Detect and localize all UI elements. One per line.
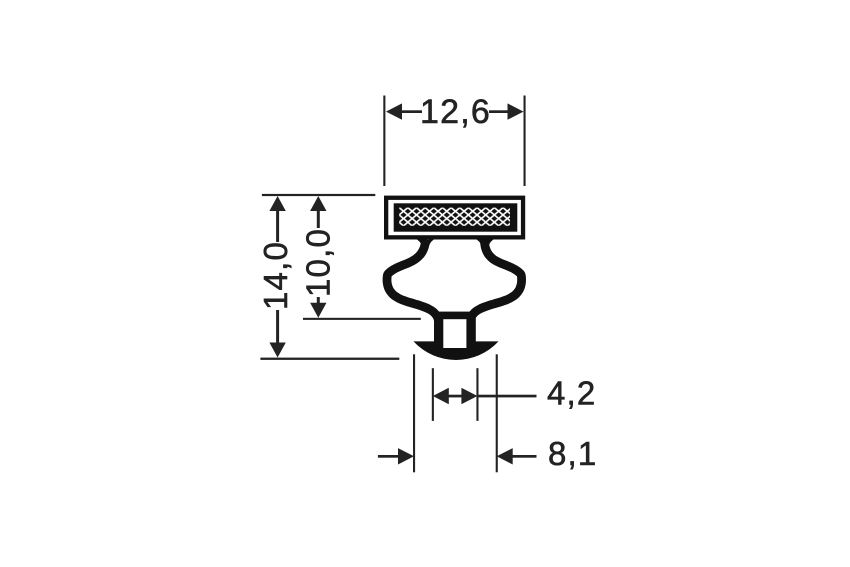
dimension 12,6 line left segment bbox=[400, 110, 422, 113]
magnet housing outer rectangle bbox=[384, 196, 525, 240]
middle extension line (10,0 bottom) bbox=[303, 318, 421, 320]
right stem inner fillet bbox=[475, 239, 481, 246]
foot white notch bbox=[443, 319, 466, 348]
foot crescent bbox=[414, 341, 499, 360]
left stem outer fillet bbox=[416, 239, 422, 246]
dimension 12,6 left arrow bbox=[386, 103, 402, 119]
top extension line (for 14,0 and 10,0) bbox=[262, 194, 375, 196]
dimension 8,1 left extension line bbox=[413, 354, 415, 472]
dimension 12,6 line right segment bbox=[489, 110, 509, 113]
neck block bbox=[434, 312, 476, 346]
dimension 8,1 left arrow bbox=[398, 448, 414, 464]
svg-text:4,2: 4,2 bbox=[547, 375, 596, 412]
dimension 4,2 right extension line bbox=[476, 368, 478, 421]
left stem inner fillet bbox=[429, 239, 435, 246]
svg-text:14,0: 14,0 bbox=[257, 241, 294, 310]
dimension 14,0 top arrow bbox=[269, 196, 285, 211]
dimension 10,0 top arrow bbox=[310, 196, 326, 211]
dimension 12,6 right extension line bbox=[524, 96, 526, 187]
gasket body S-profile outline bbox=[387, 239, 439, 325]
dimension 12,6 left extension line bbox=[383, 96, 385, 187]
dimension 4,2 connecting line bbox=[447, 395, 463, 398]
dimension 8,1 left lead-in line bbox=[378, 455, 399, 458]
dimension 4,2 left extension line bbox=[432, 368, 434, 421]
dimension 4,2 right arrow bbox=[461, 388, 477, 404]
svg-text:10,0: 10,0 bbox=[299, 228, 336, 297]
dimension 14,0 line lower segment bbox=[276, 310, 279, 344]
right stem outer fillet bbox=[489, 239, 495, 246]
magnet housing white inset bbox=[388, 200, 521, 235]
svg-text:8,1: 8,1 bbox=[548, 435, 597, 472]
dimension 10,0 line lower segment bbox=[317, 297, 320, 304]
magnet inner black block bbox=[394, 203, 518, 231]
dimension 8,1 leader line bbox=[512, 455, 537, 458]
svg-text:12,6: 12,6 bbox=[420, 93, 491, 131]
magnet mesh hatch bbox=[399, 208, 510, 226]
dimension 8,1 right arrow bbox=[497, 448, 513, 464]
dimension 4,2 leader line bbox=[477, 395, 536, 398]
dimension 14,0 bottom arrow bbox=[269, 343, 285, 358]
dimension 8,1 right extension line bbox=[496, 354, 498, 472]
bottom extension line (14,0 bottom) bbox=[260, 358, 399, 360]
dimension 14,0 line upper segment bbox=[276, 209, 279, 242]
dimension 12,6 right arrow bbox=[508, 103, 524, 119]
dimension 4,2 left arrow bbox=[433, 388, 449, 404]
dimension 10,0 bottom arrow bbox=[310, 303, 326, 318]
gasket body right flank bbox=[470, 239, 522, 326]
dimension 10,0 line upper segment bbox=[317, 209, 320, 228]
